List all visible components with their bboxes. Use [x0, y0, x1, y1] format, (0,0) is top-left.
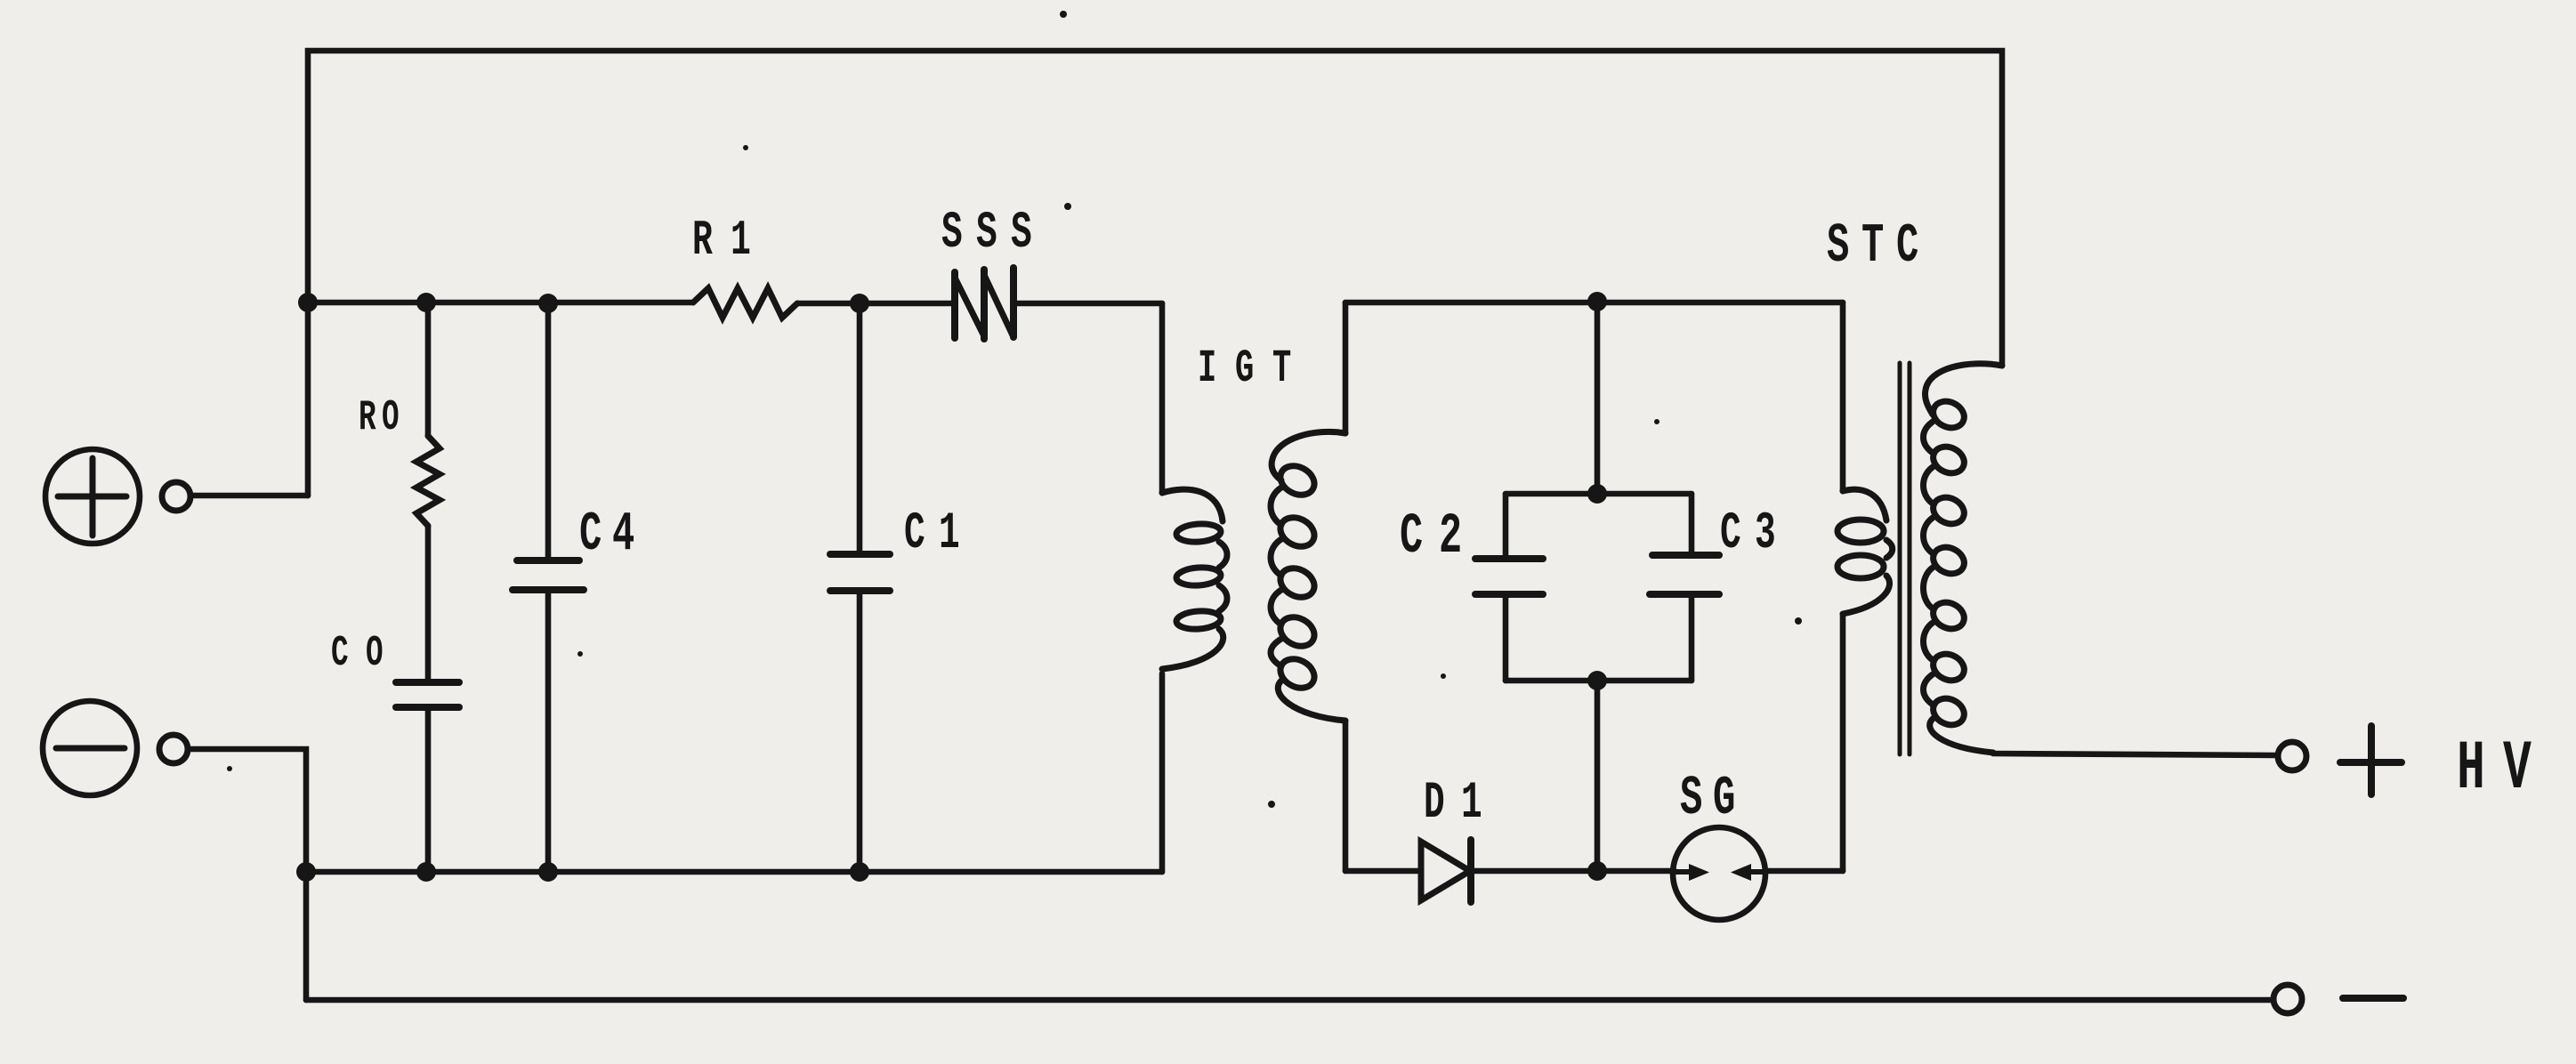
svg-text:D: D [1424, 774, 1445, 832]
svg-text:S: S [1827, 215, 1849, 278]
svg-text:1: 1 [939, 504, 960, 562]
svg-text:4: 4 [612, 504, 634, 566]
svg-text:C: C [579, 504, 602, 566]
svg-text:T: T [1272, 343, 1291, 395]
svg-text:V: V [2503, 730, 2532, 810]
svg-text:2: 2 [1439, 504, 1462, 569]
svg-text:1: 1 [1461, 774, 1482, 832]
svg-text:H: H [2457, 730, 2485, 810]
svg-text:C: C [331, 630, 349, 678]
svg-text:S: S [1011, 204, 1032, 262]
svg-text:1: 1 [731, 213, 751, 269]
svg-text:C: C [1896, 215, 1918, 278]
svg-text:R: R [692, 213, 713, 269]
svg-text:G: G [1235, 343, 1254, 395]
svg-text:O: O [366, 630, 384, 678]
svg-text:3: 3 [1755, 504, 1776, 562]
svg-text:G: G [1713, 768, 1735, 830]
svg-text:I: I [1198, 343, 1216, 395]
svg-text:C: C [904, 504, 925, 562]
svg-text:S: S [941, 204, 963, 262]
svg-text:S: S [1680, 768, 1702, 830]
svg-text:T: T [1861, 215, 1884, 278]
svg-text:R: R [359, 394, 376, 442]
svg-text:S: S [976, 204, 997, 262]
svg-text:C: C [1400, 504, 1423, 569]
svg-text:O: O [382, 394, 400, 442]
svg-text:C: C [1720, 504, 1741, 562]
